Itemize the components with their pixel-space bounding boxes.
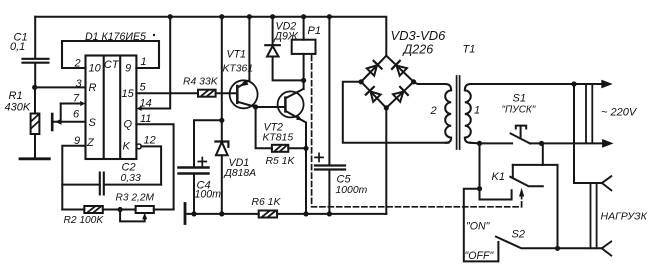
svg-text:R4 33K: R4 33K (183, 77, 219, 88)
node: top rail / VD1 (219, 14, 224, 19)
resistor R1 430K (5, 87, 40, 158)
common bar at left end of bottom rail (184, 204, 187, 224)
resistor R6 1K (252, 197, 282, 218)
wire winding 1 top to mains (471, 83, 605, 85)
node: top rail / VT1 emitter (247, 14, 252, 19)
switch S2 (496, 229, 602, 249)
svg-text:2: 2 (430, 105, 437, 117)
capacitor C5 1000m (electrolytic) (315, 17, 368, 214)
node: mains L / load branch (571, 81, 576, 86)
node: bottom rail / C5 (327, 211, 332, 216)
svg-text:R2 100K: R2 100K (64, 215, 105, 226)
svg-text:S1: S1 (513, 93, 526, 105)
svg-text:P1: P1 (308, 25, 321, 37)
wire mains L down to load top terminal (574, 84, 602, 183)
diode bridge VD3-VD6 D226 (361, 56, 414, 108)
node: R5 / VT2 emitter (303, 146, 308, 151)
wire pin 12 (K, inverted) (141, 146, 161, 184)
core (457, 76, 460, 149)
svg-text:6: 6 (73, 109, 80, 121)
node: top rail / C5 (327, 14, 332, 19)
wire VT1 collector down to R5 (256, 107, 272, 148)
wire pin 3 to R input (35, 86, 86, 88)
svg-text:KT815: KT815 (263, 133, 294, 144)
wire ON branch to S2 (464, 189, 499, 262)
svg-text:11: 11 (140, 113, 151, 125)
svg-text:K1: K1 (492, 171, 505, 183)
wire pin 7 with input arrow (61, 101, 86, 122)
svg-text:R3 2,2M: R3 2,2M (116, 193, 155, 204)
node: bridge bottom vertex (384, 105, 389, 110)
svg-text:1: 1 (474, 105, 480, 117)
svg-text:430K: 430K (5, 102, 31, 114)
wire pin 9 (Z) (62, 146, 85, 210)
connector double bars (load socket) (591, 183, 597, 248)
svg-text:S: S (89, 117, 97, 129)
wire top supply rail (35, 17, 386, 56)
relay contact K1 (480, 143, 558, 199)
transistor VT1 KT361 (PNP) (223, 17, 258, 109)
wire bridge bottom vertex down to rail (385, 108, 387, 214)
wire bridge left vertex to winding 2 bottom (343, 82, 449, 143)
connector double bars (mains plug) (586, 84, 592, 143)
transistor VT2 KT815 (NPN) (263, 89, 307, 149)
svg-text:0,33: 0,33 (121, 173, 141, 184)
diode VD3 (top-left) (367, 61, 382, 76)
svg-text:C5: C5 (337, 174, 352, 186)
ground bar under R1 (20, 157, 49, 160)
svg-text:Z: Z (86, 137, 95, 149)
svg-text:"OFF": "OFF" (465, 250, 495, 262)
svg-text:1: 1 (141, 56, 147, 68)
node: K1 / ON branch (477, 186, 482, 191)
node: bottom rail / VT2 emitter (303, 211, 308, 216)
capacitor C1 0,1 (10, 17, 48, 88)
switch S1 "PUSK" (pushbutton) (502, 93, 536, 144)
svg-text:9: 9 (125, 63, 131, 75)
node: top rail / P1 (301, 14, 306, 19)
svg-text:15: 15 (122, 88, 135, 100)
svg-text:R: R (89, 82, 97, 94)
svg-text:R6 1K: R6 1K (252, 197, 282, 208)
svg-text:1000m: 1000m (336, 185, 368, 196)
node: mains N / K1 top branch (539, 141, 544, 146)
svg-text:Д226: Д226 (402, 43, 434, 57)
svg-text:Д818А: Д818А (224, 168, 257, 179)
node: S2 wire / K1 right branch (555, 246, 560, 251)
wire bottom common rail (185, 213, 386, 215)
svg-text:K: K (123, 141, 131, 153)
wire pin 11 (Q) (136, 124, 173, 209)
svg-text:VD3-VD6: VD3-VD6 (391, 28, 447, 43)
capacitor C2 0,33 (62, 162, 161, 195)
svg-text:3: 3 (76, 78, 83, 90)
svg-text:Д9Ж: Д9Ж (274, 31, 299, 43)
node: top rail / VD2 (270, 14, 275, 19)
wire VT1 collector to VT2 base (256, 106, 286, 108)
svg-text:D1 К176ИЕ5: D1 К176ИЕ5 (85, 31, 146, 43)
node: R2/R3 junction (118, 207, 123, 212)
wire pins 5/14 up to supply rail (169, 17, 171, 94)
node: bridge left vertex (359, 79, 364, 84)
svg-text:~ 220V: ~ 220V (601, 107, 638, 119)
wire S1 right contact to mains N (530, 142, 609, 144)
wire VT2 emitter node to bottom rail (305, 148, 307, 214)
winding 2 (445, 84, 451, 143)
actuation arrow at K1 (519, 188, 524, 197)
relay coil P1 (292, 17, 321, 89)
wire pin 5/15 output (136, 92, 198, 94)
node: top rail / pin5-14 branch (168, 14, 173, 19)
winding 1 (465, 84, 471, 143)
transformer T1 (430, 44, 481, 150)
diode VD4 (top-right) (392, 61, 407, 76)
zener diode VD1 D818A (215, 17, 256, 214)
diode VD6 (bottom-right) (393, 87, 408, 102)
svg-text:5: 5 (140, 82, 147, 94)
svg-text:Q: Q (124, 119, 133, 131)
wire to S1 left contact (471, 142, 513, 145)
node: VD1 / C4 branch (219, 118, 224, 123)
svg-text:S2: S2 (512, 229, 525, 241)
svg-text:CT: CT (104, 59, 120, 71)
svg-text:KT361: KT361 (223, 64, 254, 75)
svg-text:9: 9 (74, 135, 80, 147)
svg-text:"ПУСК": "ПУСК" (502, 105, 536, 116)
svg-text:T1: T1 (463, 44, 476, 56)
svg-text:C2: C2 (122, 162, 136, 174)
diode VD2 D9Zh (265, 17, 303, 81)
stray dot (scan mark) (153, 34, 155, 36)
mains terminal arrow (top, L) (601, 80, 612, 89)
svg-text:0,1: 0,1 (10, 41, 25, 53)
node: bridge right vertex (411, 79, 416, 84)
resistor R3 2,2M variable (116, 193, 174, 222)
node: bottom rail / VD1 (219, 211, 224, 216)
svg-text:100m: 100m (195, 189, 222, 201)
resistor R5 1K (266, 145, 307, 167)
node: P1 / VD2 / VT2 collector (301, 78, 306, 83)
svg-text:R1: R1 (9, 90, 23, 102)
resistor R4 33K (183, 77, 237, 97)
svg-text:НАГРУЗК: НАГРУЗК (601, 211, 648, 223)
svg-text:10: 10 (89, 63, 102, 75)
wire bridge right vertex to winding 2 top (414, 82, 446, 84)
load terminal fork (bottom) (602, 242, 611, 256)
touch contact plate (sensor at pin 6) (52, 114, 85, 130)
diode VD5 (bottom-left) (366, 87, 381, 102)
node: bottom rail / C4 (191, 211, 196, 216)
svg-text:12: 12 (144, 135, 156, 147)
svg-text:7: 7 (73, 93, 80, 105)
svg-text:R5 1K: R5 1K (266, 156, 296, 167)
resistor R2 100K (62, 206, 135, 226)
load terminal fork (top) (602, 176, 611, 190)
capacitor C4 100m (electrolytic) (179, 120, 222, 214)
svg-text:"ON": "ON" (466, 221, 491, 233)
IC D1 K176IE5 (62, 31, 159, 159)
node: VT1 collector / VT2 base (253, 104, 258, 109)
wire K1 right side down to S2 (557, 165, 559, 248)
svg-text:2: 2 (74, 58, 81, 70)
wire pin 14 with input arrow (136, 93, 170, 111)
svg-text:VT1: VT1 (227, 49, 246, 61)
mechanical link (dashed) from P1 to K1 (312, 56, 522, 207)
node: C1/R1/pin3 junction (32, 85, 37, 90)
node: winding1 bottom / K1 branch (477, 141, 482, 146)
mains terminal arrow (bottom, N) (602, 139, 613, 148)
